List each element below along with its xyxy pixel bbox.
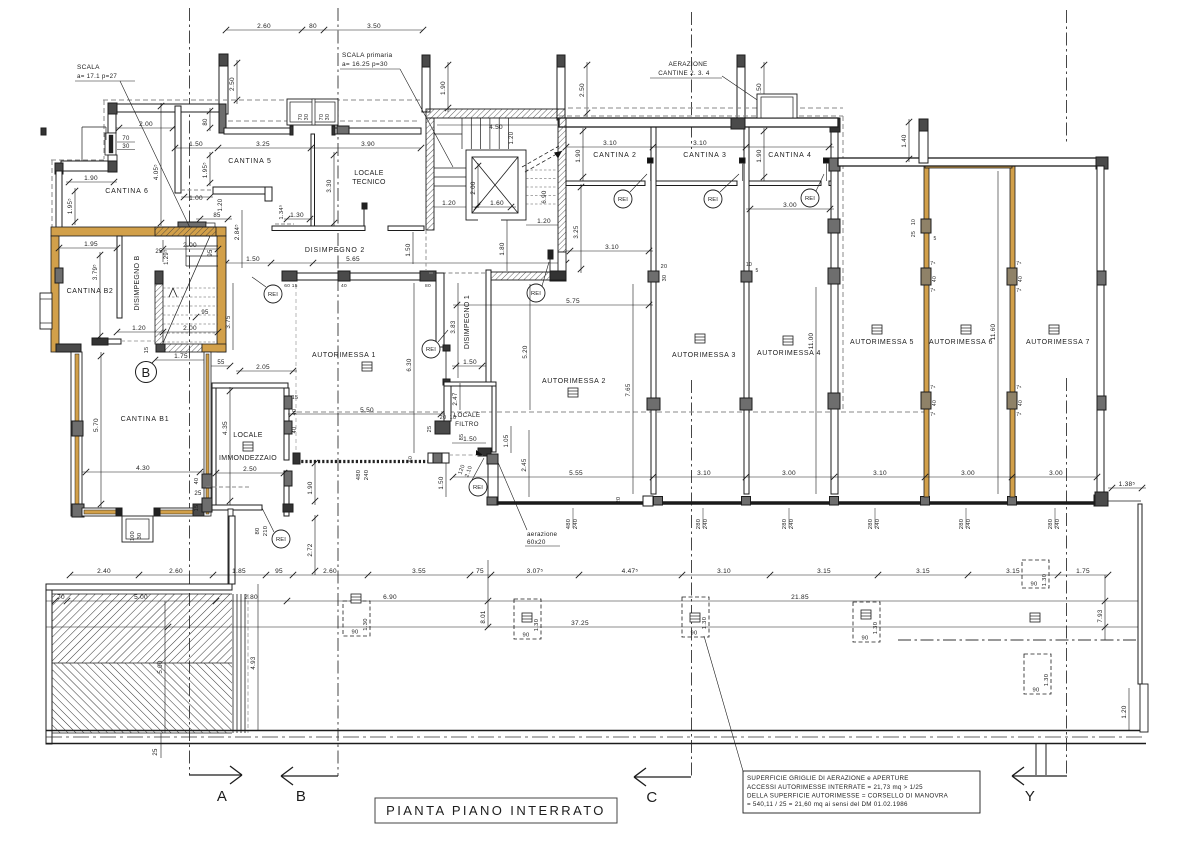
dim 11.60 rot [997,171,999,494]
svg-text:1.00: 1.00 [189,195,203,202]
bottom band top line [46,730,1146,732]
svg-text:1.50: 1.50 [463,436,477,443]
svg-text:30: 30 [304,114,310,121]
dim 2.00 rot elev [477,163,479,208]
dim row top y30 [226,29,423,31]
corner col [1096,157,1108,169]
orange wall 2 [1010,166,1015,497]
dim 2.50 [216,472,284,474]
dim 4.50 [437,124,557,126]
gray col below stub [219,104,226,133]
svg-text:2.50: 2.50 [243,466,257,473]
partition col [648,271,659,282]
svg-text:PIANTA PIANO INTERRATO: PIANTA PIANO INTERRATO [386,803,606,818]
aerazione leader2 [722,76,775,112]
rei leader [262,508,274,532]
dim 4.05.5 rot [160,103,162,226]
svg-text:B: B [142,365,151,380]
long wall y497 [498,501,1103,505]
svg-text:1.20: 1.20 [132,325,146,332]
svg-text:240: 240 [789,519,795,530]
b1 left gray block 2 [72,504,84,517]
stair left treads [434,167,466,169]
gridline A (dash-dot vertical) [189,8,191,775]
orange wall 1 [924,166,929,497]
svg-text:REI: REI [268,292,278,298]
top wall right section [838,158,1103,166]
svg-text:80: 80 [203,118,209,126]
svg-text:1.30: 1.30 [534,619,540,631]
gridline Y lower [1066,378,1068,776]
dim 5.50 [288,413,445,415]
svg-text:6.90: 6.90 [541,190,548,204]
section arrow B [281,775,338,777]
svg-text:4.93: 4.93 [250,656,257,670]
svg-text:REI: REI [473,485,483,491]
icon a7 [1049,325,1059,334]
b1 right end block [193,504,209,516]
partition col3 [647,398,660,410]
col top-left [108,103,117,114]
svg-text:240: 240 [364,470,370,481]
rei leader f [472,458,484,480]
long wall col x925 [921,497,930,506]
dim 4.30 [82,471,204,473]
svg-text:280: 280 [1048,519,1054,530]
svg-text:a= 17.1 p=27: a= 17.1 p=27 [77,73,117,80]
svg-text:3.25: 3.25 [573,225,580,239]
svg-text:AUTORIMESSA 1: AUTORIMESSA 1 [312,352,376,359]
wall to left [61,161,108,171]
dim row garage bottom [453,476,1097,478]
disimpegno1 left wall [436,273,444,347]
svg-text:SCALA: SCALA [77,64,100,71]
stair treads right dashed [526,169,558,171]
bottom band bottom line [46,743,1146,745]
svg-text:1.85: 1.85 [232,568,246,575]
svg-text:AUTORIMESSA 7: AUTORIMESSA 7 [1026,339,1090,346]
col [420,271,436,281]
svg-text:a= 16.25 p=30: a= 16.25 p=30 [342,61,388,68]
bay window left [40,293,52,329]
svg-text:40: 40 [1018,400,1024,406]
svg-text:2.60: 2.60 [169,568,183,575]
right wall col [1097,271,1106,285]
imm grille icon [243,442,253,451]
section arrow C [634,776,691,778]
svg-text:20: 20 [440,415,447,421]
rei leader d [438,330,448,342]
svg-text:2.60: 2.60 [257,23,271,30]
svg-text:55: 55 [217,360,225,366]
svg-text:4.35: 4.35 [222,421,229,435]
svg-text:80: 80 [425,283,431,289]
svg-text:3.10: 3.10 [717,568,731,575]
svg-text:4.50: 4.50 [489,124,503,131]
dashed border left v1 [103,100,105,159]
svg-text:A: A [217,788,227,805]
b1 door jambs [116,508,122,516]
door stub d [829,181,831,186]
cap [219,54,228,66]
svg-text:aerazione: aerazione [527,531,558,538]
dashed gap [121,340,155,342]
elevator X [472,157,518,213]
orange right wall [217,236,226,352]
corridor door dashed [429,272,486,274]
long wall col x1012 [1008,497,1017,506]
svg-text:1.20: 1.20 [537,218,551,225]
dim row y575 [70,574,1108,576]
interior wall b2 [117,236,122,318]
svg-text:21.85: 21.85 [791,594,809,601]
door jamb a [648,158,654,163]
stair right wall [558,118,566,252]
filtro door jamb [478,448,491,456]
cap [422,55,430,67]
top wall cantina band [559,118,838,127]
dim 1.50 f [452,365,486,367]
svg-text:1.80: 1.80 [499,242,506,256]
svg-text:2.00: 2.00 [139,121,153,128]
svg-text:REI: REI [805,196,815,202]
svg-text:7⁵: 7⁵ [930,385,935,391]
door arrow [476,450,483,455]
svg-text:CANTINA 5: CANTINA 5 [228,158,271,165]
right wall col2 [1097,396,1106,410]
dim 1.80 rot s [506,220,508,271]
svg-text:60x20: 60x20 [527,539,546,546]
wall stub x739 [737,55,745,121]
filtro top wall [444,382,496,386]
opening [643,496,653,506]
svg-text:5.65: 5.65 [346,256,360,263]
svg-text:25: 25 [427,426,433,433]
dashed border top-left cluster [103,99,421,101]
dashed upper property [568,107,843,109]
col [337,126,349,134]
svg-text:ACCESSI AUTORIMESSE INTERRAT: ACCESSI AUTORIMESSE INTERRATE = 21,73 mq… [747,784,923,791]
b1 right col 1 [202,474,212,488]
svg-text:3.10: 3.10 [873,470,887,477]
icon a1 [362,362,372,371]
dashed right of cantina4 [842,116,844,411]
stair treads [461,118,463,149]
svg-text:AUTORIMESSA 2: AUTORIMESSA 2 [542,378,606,385]
rei c3 [704,190,722,208]
icon a2 [568,388,578,397]
scala leader [120,81,192,232]
dim 4.93 rot [257,584,259,730]
svg-text:1.50: 1.50 [246,256,260,263]
dim 1.95 b2 [59,247,117,249]
svg-text:240: 240 [1055,519,1061,530]
stair bottom dark block [156,344,165,352]
imm right lower wall [284,480,289,516]
svg-text:3.07⁵: 3.07⁵ [527,568,544,575]
rei leader c3 [720,174,739,192]
dotted projection [295,285,297,453]
svg-text:1.34⁵: 1.34⁵ [278,204,285,219]
b1 right wall [204,352,211,516]
svg-text:REI: REI [618,197,628,203]
svg-text:4.30: 4.30 [136,465,150,472]
b1 left wall [71,352,82,516]
svg-text:7⁵: 7⁵ [1016,412,1021,418]
svg-text:1.60: 1.60 [490,200,504,207]
wall below col [108,114,116,133]
svg-text:30: 30 [137,533,143,540]
svg-text:1.20: 1.20 [1121,705,1128,719]
svg-text:3.15: 3.15 [1006,568,1020,575]
svg-text:1.50: 1.50 [463,359,477,366]
landing bar [178,222,206,229]
partition col2 [741,271,752,282]
filtro col [435,421,450,434]
grille box 4 [853,602,880,642]
right lower jog [1140,684,1148,732]
svg-text:7⁵: 7⁵ [1016,288,1021,294]
door leaf [445,350,447,379]
door stub c [749,181,821,186]
svg-text:3.10: 3.10 [603,140,617,147]
wall left cantina5 [175,106,181,193]
stair top wall [426,109,565,118]
svg-text:1.30: 1.30 [1044,674,1050,686]
svg-text:3.00: 3.00 [783,202,797,209]
imm top wall [212,383,288,388]
svg-text:5.70: 5.70 [93,418,100,432]
dim row y147 upper left [175,147,421,149]
door jamb b [740,158,746,163]
door stub a [566,181,645,186]
cantina5 top wall b [335,128,421,134]
svg-text:3.10: 3.10 [697,470,711,477]
svg-text:6.30: 6.30 [406,358,413,372]
dim 1.38.5 [1108,487,1146,489]
disimpegno1 right wall [486,270,491,382]
svg-text:1.95⁵: 1.95⁵ [67,198,74,214]
svg-text:SUPERFICIE GRIGLIE DI AERAZ: SUPERFICIE GRIGLIE DI AERAZIONE e APERTU… [747,775,909,782]
svg-text:3.50: 3.50 [367,23,381,30]
grille box 5 [1022,560,1049,588]
svg-text:DISIMPEGNO 1: DISIMPEGNO 1 [464,295,471,349]
circle B [136,362,157,383]
svg-text:30: 30 [662,275,668,282]
svg-text:CANTINA 4: CANTINA 4 [768,152,811,159]
dim 3.79.5 rot [99,252,101,339]
hatch over stair top wall [155,227,216,236]
left edge mark [41,128,46,135]
grille box 1 [343,601,370,636]
imm col gray3 [284,471,292,486]
b2 bottom wall [93,339,121,344]
dashed mid garage horizontal [297,411,925,413]
wall stub x424 [422,55,430,112]
svg-text:IMMONDEZZAIO: IMMONDEZZAIO [219,455,277,462]
svg-text:7⁵: 7⁵ [1016,385,1021,391]
dim 1.20 s2 [434,206,466,208]
wall stub x222 [219,54,228,114]
door jamb c [824,158,830,163]
dim 2.50 c [763,62,765,117]
svg-text:1.30: 1.30 [363,618,369,630]
svg-text:60: 60 [408,456,414,462]
svg-text:10: 10 [911,219,917,225]
dim row corridor [226,262,566,264]
dim 8.01 rot [487,560,489,627]
svg-text:AUTORIMESSA 6: AUTORIMESSA 6 [929,339,993,346]
dim 2.50 b [586,62,588,117]
ramp hatch upper [52,594,232,663]
icon a6 [961,325,971,334]
svg-text:280: 280 [696,519,702,530]
cantina5 top wall a [224,128,290,134]
elevator outer [466,150,526,220]
note leader [704,636,743,771]
ramp right dashed [247,594,249,733]
b1 left gray block 1 [72,421,83,436]
col conn top [487,454,498,464]
svg-text:1.90: 1.90 [756,149,763,163]
svg-text:2.50: 2.50 [579,83,586,97]
svg-text:1.05: 1.05 [504,434,510,447]
svg-text:280: 280 [959,519,965,530]
dim 1.90 [447,62,449,112]
top wall cantina6 [117,104,220,112]
svg-text:1.20: 1.20 [509,131,515,144]
svg-text:REI: REI [531,291,541,297]
svg-text:2.50: 2.50 [229,77,236,91]
svg-text:75: 75 [476,568,484,575]
ramp right stripes [232,594,234,733]
svg-text:3.55: 3.55 [412,568,426,575]
wall jog [265,187,272,201]
stair right cap [550,271,566,280]
aerazione box [757,94,797,118]
svg-text:CANTINA 3: CANTINA 3 [683,152,726,159]
svg-text:3.83: 3.83 [450,320,457,334]
imm col base [283,504,293,512]
svg-text:5.50: 5.50 [360,407,374,414]
col [338,271,350,281]
col dark mid-left [108,161,117,172]
vent block [428,453,449,463]
svg-text:1.38⁵: 1.38⁵ [1119,481,1136,488]
stair diagonal [163,236,210,343]
svg-text:4.47⁵: 4.47⁵ [622,568,639,575]
dashdot y640 [898,639,1141,641]
svg-text:40: 40 [1018,276,1024,282]
dim 6.30 rot [413,283,415,453]
rei corridor [264,285,282,303]
b1 right col 2 [202,498,212,512]
corridor hatched wall [489,272,550,280]
svg-text:210: 210 [263,526,269,537]
title box [375,798,617,823]
grille icon alone [1030,613,1040,622]
box tecnico top [287,99,338,125]
gray block on left wall [55,268,63,283]
svg-text:5: 5 [755,268,758,274]
dim 1.20 lower [117,331,163,333]
right wall bottom col [1095,492,1108,506]
svg-text:40: 40 [194,478,200,485]
stair left hatched wall [155,284,163,344]
svg-text:40: 40 [292,409,298,416]
svg-text:60 15: 60 15 [284,283,298,289]
svg-text:1.95⁵: 1.95⁵ [202,162,209,178]
rei imm [272,530,290,548]
c4 col upper [828,219,840,233]
dim 2.00 lower [163,331,218,333]
bottom stub [1035,744,1037,775]
imm right col 2 [284,421,292,434]
dim 1.90 rot c4 [763,128,765,181]
cap [737,55,745,67]
svg-text:1.90: 1.90 [307,481,314,495]
ramp left wall [46,590,52,744]
ramp hatch lower [52,663,232,733]
rei c2 [614,190,632,208]
long wall col x658 [654,497,663,506]
svg-text:1.30: 1.30 [290,212,304,219]
svg-text:5.55: 5.55 [569,470,583,477]
svg-text:15: 15 [292,395,299,401]
dim row y601 [46,600,1141,602]
svg-text:90: 90 [351,630,358,636]
svg-text:25: 25 [194,491,202,497]
svg-text:240: 240 [573,519,579,530]
svg-text:1.29⁵: 1.29⁵ [163,249,170,265]
svg-text:1.40: 1.40 [901,134,908,148]
dim 4.35 rot [229,387,231,505]
svg-text:7⁵: 7⁵ [1016,261,1021,267]
dim 2.00 stair [163,248,218,250]
dim 5.70 rot [100,352,102,508]
svg-text:= 540,11 / 25 = 21,60 mq: = 540,11 / 25 = 21,60 mq ai sensi del DM… [747,801,908,808]
svg-text:100: 100 [130,531,136,541]
svg-text:2.47: 2.47 [452,392,459,406]
svg-text:20: 20 [616,497,622,504]
col left end [293,453,300,464]
dashed top cantina band [559,115,843,117]
svg-text:1.50: 1.50 [438,476,445,490]
stair tread box [185,236,187,266]
svg-text:20: 20 [661,264,668,270]
svg-text:REI: REI [276,537,286,543]
svg-text:480: 480 [566,519,572,530]
svg-text:3.79⁵: 3.79⁵ [92,264,99,280]
dim 5.00 rot ramp [164,601,166,733]
svg-text:CANTINA B1: CANTINA B1 [121,416,170,423]
svg-text:3.00: 3.00 [961,470,975,477]
svg-text:2.45: 2.45 [521,458,528,472]
oc4 [921,392,931,409]
svg-text:30: 30 [325,114,331,121]
svg-text:REI: REI [708,197,718,203]
svg-text:7.65: 7.65 [625,383,632,397]
svg-text:15: 15 [194,505,200,512]
svg-text:FILTRO: FILTRO [455,421,479,428]
svg-text:6.90: 6.90 [383,594,397,601]
stair right wall low [558,252,566,271]
oc3 [1007,268,1017,285]
col [92,338,108,345]
svg-text:CANTINA 2: CANTINA 2 [593,152,636,159]
gridline C lower [691,380,693,777]
svg-text:REI: REI [426,347,436,353]
